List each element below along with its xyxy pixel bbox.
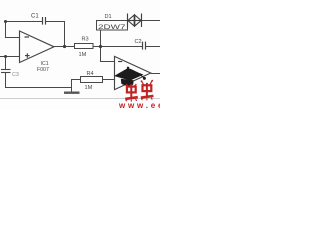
watermark graduation cap — [114, 67, 146, 86]
resistor R4 — [81, 77, 103, 83]
wire left vertical to inverting input — [6, 22, 20, 38]
svg-text:www.ee: www.ee — [118, 101, 160, 110]
wire C2 right to edge — [146, 46, 161, 48]
svg-text:C2: C2 — [135, 39, 142, 45]
wire C3 branch down — [5, 57, 7, 70]
wire C3 bottom to rail — [6, 73, 72, 88]
svg-text:R4: R4 — [87, 71, 94, 77]
faint scan line — [0, 98, 160, 100]
wire top feedback from node to C1 — [5, 21, 42, 23]
capacitor C1 — [43, 17, 46, 25]
wire R3 right lead — [93, 46, 101, 48]
wire R4 right lead to op-amp2 plus input — [103, 79, 115, 81]
svg-text:C3: C3 — [12, 72, 19, 78]
node A dot — [99, 45, 102, 48]
capacitor C3 — [1, 70, 11, 73]
wire R4 left lead to ground stem — [72, 80, 81, 92]
2DW7 box — [97, 21, 128, 31]
wire node A to C2 — [101, 46, 143, 48]
node dot output junction — [63, 45, 66, 48]
node dot plus-input junction — [4, 55, 7, 58]
svg-text:2DW7: 2DW7 — [98, 25, 127, 31]
watermark red bug right — [141, 80, 154, 98]
svg-text:F007: F007 — [37, 67, 49, 73]
wire non-inverting input from left edge — [0, 56, 20, 58]
op-amp U1 IC1 — [20, 31, 55, 63]
wire op-amp1 output — [54, 46, 75, 48]
svg-text:C1: C1 — [31, 14, 39, 20]
node dot top-left — [4, 20, 7, 23]
resistor R3 — [75, 44, 94, 49]
capacitor C2 — [143, 42, 146, 50]
op-amp U2 IC2 — [115, 56, 151, 89]
wire D1 branch right to edge — [142, 20, 161, 22]
wire C1 right to corner down to output node — [46, 22, 65, 47]
bug feet right — [142, 98, 153, 101]
svg-text:1M: 1M — [85, 85, 93, 91]
wire node A down to op-amp2 inverting input — [101, 47, 115, 62]
svg-text:R3: R3 — [82, 37, 89, 43]
svg-text:D1: D1 — [105, 14, 112, 20]
wire op-amp2 output to edge — [151, 73, 160, 75]
wire branch up to 2DW7 box — [100, 30, 102, 47]
dual zener D1 — [128, 14, 142, 28]
ground — [64, 91, 80, 93]
svg-text:1M: 1M — [79, 52, 87, 58]
watermark red bug left — [125, 84, 138, 99]
bug feet left — [126, 99, 137, 102]
